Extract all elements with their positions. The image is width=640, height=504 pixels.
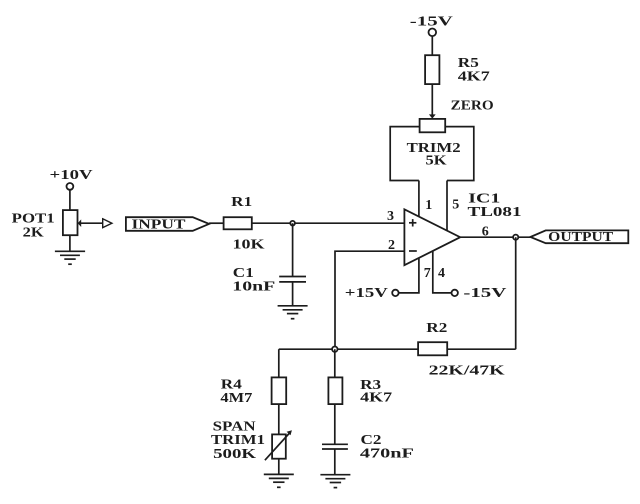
svg-text:R1: R1 — [231, 195, 252, 210]
wire pin 1 of IC1 — [418, 181, 420, 218]
svg-text:22K/47K: 22K/47K — [429, 364, 505, 379]
svg-text:-15V: -15V — [410, 15, 453, 30]
resistor R3 — [328, 377, 342, 404]
wire output junction down to R2 — [515, 237, 517, 349]
wire IC1 pin 4 — [433, 251, 452, 293]
svg-text:ZERO: ZERO — [451, 99, 494, 114]
svg-text:TRIM1: TRIM1 — [211, 433, 265, 448]
wire node row down to R4 — [278, 349, 280, 377]
svg-text:4K7: 4K7 — [360, 390, 392, 405]
svg-text:5: 5 — [452, 197, 459, 212]
svg-text:5K: 5K — [426, 153, 447, 168]
wire junction to C1 — [292, 223, 294, 276]
svg-text:+15V: +15V — [345, 286, 388, 301]
capacitor C1 — [279, 277, 306, 282]
wiper arrow into TRIM2 — [429, 114, 436, 118]
svg-text:3: 3 — [387, 209, 394, 224]
wire TRIM2 right terminal loop — [445, 127, 474, 181]
power terminal +10V — [50, 168, 93, 190]
svg-text:10nF: 10nF — [232, 279, 275, 294]
svg-text:2K: 2K — [23, 225, 44, 240]
resistor R2 — [418, 342, 447, 355]
wire INPUT tag to R1 — [209, 222, 224, 224]
junction node at R1/C1 — [290, 221, 295, 226]
resistor R5 — [425, 55, 439, 84]
resistor R4 — [272, 377, 287, 404]
wire pin 5 of IC1 — [446, 181, 448, 232]
resistor R1 — [224, 217, 252, 229]
ground (C2) — [320, 475, 350, 488]
wire TRIM1 to ground — [278, 459, 280, 475]
svg-text:INPUT: INPUT — [132, 218, 187, 233]
power terminal -15V (right) — [452, 286, 507, 301]
svg-text:4: 4 — [438, 266, 445, 281]
net tag INPUT — [126, 217, 209, 232]
svg-text:470nF: 470nF — [360, 447, 414, 462]
TRIM1 diagonal arrow — [265, 430, 292, 460]
wire -15V terminal to R5 — [431, 36, 433, 55]
svg-text:1: 1 — [425, 198, 432, 213]
wire R3 to C2 — [334, 404, 336, 444]
svg-text:10K: 10K — [233, 238, 265, 253]
svg-text:R2: R2 — [426, 321, 447, 336]
wire R5 to TRIM2 wiper — [431, 84, 433, 115]
ground (POT1) — [55, 251, 85, 264]
wire C1 to ground — [292, 282, 294, 306]
power terminal +15V — [345, 286, 399, 301]
op-amp U1 (IC1 TL081) triangle — [404, 209, 460, 265]
wire TRIM2 left terminal loop — [390, 127, 419, 181]
wire IC1 pin 7 — [399, 258, 419, 293]
open arrowhead on wiper wire — [103, 219, 112, 228]
svg-text:-15V: -15V — [463, 286, 506, 301]
junction node at output — [513, 235, 518, 240]
svg-text:4K7: 4K7 — [458, 70, 490, 85]
ground (TRIM1) — [264, 474, 294, 487]
ground (C1) — [278, 306, 308, 319]
wire +10V to POT1 — [69, 190, 71, 210]
potentiometer POT1 body — [63, 210, 78, 235]
trimmer TRIM1 body — [272, 434, 286, 458]
wire R1 to IC1 pin 3 — [252, 222, 405, 224]
wire R2 left to node row — [279, 348, 418, 350]
wire IC1 pin 2 to feedback node — [335, 251, 404, 349]
svg-text:4M7: 4M7 — [220, 391, 252, 406]
wire node to R3 — [334, 349, 336, 377]
wire C2 to ground — [334, 449, 336, 475]
wire R4 to TRIM1 — [278, 404, 280, 434]
trimmer TRIM2 body — [420, 119, 446, 132]
wire R2 right to feedback vertical — [447, 348, 516, 350]
svg-text:TL081: TL081 — [468, 205, 522, 220]
minus sign at pin 2 input — [409, 250, 417, 252]
wire POT1 to ground — [69, 235, 71, 251]
net tag OUTPUT — [530, 230, 628, 245]
POT1 wiper contact arrow — [78, 219, 82, 227]
svg-text:+10V: +10V — [50, 168, 93, 183]
wire IC1 output pin 6 — [460, 236, 530, 238]
capacitor C2 — [322, 444, 348, 449]
svg-text:OUTPUT: OUTPUT — [548, 230, 614, 245]
svg-text:7: 7 — [424, 266, 431, 281]
svg-text:500K: 500K — [213, 447, 256, 462]
wire POT1 wiper — [81, 222, 103, 224]
junction node feedback/R3 — [332, 347, 337, 352]
plus sign at pin 3 input — [409, 219, 416, 226]
power terminal -15V (top) — [410, 15, 453, 37]
